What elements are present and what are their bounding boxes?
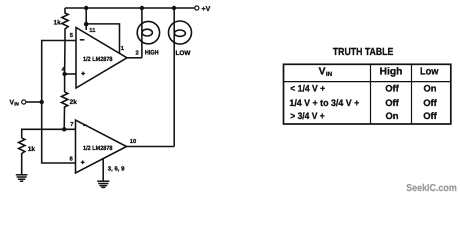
wire HIGH lamp vertical [141,8,143,58]
svg-text:IN: IN [326,71,333,78]
table row 3 Low cell [423,110,437,121]
svg-text:1/2 LM2878: 1/2 LM2878 [83,145,113,152]
lamp LOW [169,21,192,44]
svg-text:> 3/4 V +: > 3/4 V + [290,110,325,121]
label VIN [10,100,20,107]
svg-text:1k: 1k [28,146,36,153]
label 2k [70,99,78,106]
terminal +V [195,6,199,10]
node VIN junction [40,100,44,104]
pin 2 [136,49,139,56]
table row 2 VIN cell [289,97,359,108]
wire VIN to pin5 and pin8 [42,41,76,164]
table row 1 Low cell [423,83,436,94]
svg-text:High: High [380,67,403,78]
wire divider node A vertical (1k bottom to pin4 junction to 2k top) [64,41,66,93]
node rail/pin11 [84,6,88,10]
svg-text:1k: 1k [54,20,62,27]
node pin11/pin1 junction [84,22,89,27]
label HIGH [145,50,159,57]
svg-text:SeekIC.com: SeekIC.com [406,183,457,194]
svg-text:TRUTH TABLE: TRUTH TABLE [333,47,394,58]
svg-text:V: V [319,66,326,77]
svg-text:3, 6, 9: 3, 6, 9 [108,165,125,172]
svg-text:HIGH: HIGH [145,50,159,57]
label +V [202,6,211,13]
label U1 1/2 LM2878 [83,56,113,63]
table row 1 High cell [385,83,399,94]
svg-text:Off: Off [385,97,399,108]
svg-text:8: 8 [70,155,74,162]
terminal VIN [22,100,26,104]
wire pin7 lead / node B to lower 1k [22,129,76,138]
table header High [380,67,403,78]
pin 11 [89,28,96,34]
label LOW [176,50,192,57]
op-amp U1 plus input mark [81,72,85,76]
svg-text:+V: +V [202,6,211,13]
table row 1 VIN cell [290,83,325,94]
svg-text:11: 11 [89,28,96,34]
svg-text:LOW: LOW [176,50,192,57]
table row 3 High cell [385,110,398,121]
svg-text:2k: 2k [70,99,78,106]
resistor R2 2k [61,92,67,129]
label SeekIC.com watermark [406,183,457,194]
truth table box [284,64,451,124]
pin 4 [62,67,66,73]
svg-text:5: 5 [70,33,74,39]
wire top V+ rail [65,7,195,9]
svg-text:10: 10 [130,138,136,145]
svg-text:1/2 LM2878: 1/2 LM2878 [83,56,113,63]
node rail/HIGH [140,6,144,10]
svg-text:On: On [385,110,398,121]
label 3, 6, 9 [108,165,125,172]
label U2 1/2 LM2878 [83,145,113,152]
wire pin11 to rail [85,8,87,30]
table row 2 Low cell [423,97,437,108]
truth table header underline [284,81,451,83]
wire U2 ground stem [102,159,104,181]
op-amp U2 1/2 LM2878 (bottom) [76,120,127,173]
wire U1 output to HIGH lamp [127,57,142,59]
ground (below R3) [16,175,28,181]
node rail/LOW [172,6,176,10]
table header Low [420,67,438,78]
wire pin1 tie to V+ [86,24,119,54]
svg-text:< 1/4 V +: < 1/4 V + [290,83,325,94]
pin 8 [70,155,74,162]
op-amp U1 minus input mark [80,39,85,41]
node A junction (pin4) [62,72,66,76]
svg-text:7: 7 [70,122,73,128]
wire pin4 lead [65,73,76,75]
op-amp U2 plus input mark [81,160,85,164]
label 1k (bottom) [28,146,36,153]
svg-text:On: On [423,83,436,94]
table header VIN [319,66,333,78]
resistor R1 1k top [62,8,68,41]
table row 2 High cell [385,97,399,108]
ground (U2 pins 3,6,9) [97,181,109,187]
op-amp U1 1/2 LM2878 (top) [76,28,127,89]
resistor R3 1k bottom [19,138,25,175]
svg-text:2: 2 [136,49,139,56]
node B junction (2k bottom) [62,127,66,131]
pin 5 [70,33,74,39]
svg-text:IN: IN [14,102,19,107]
svg-text:1: 1 [121,46,125,52]
wire U2 output [127,146,175,148]
label TRUTH TABLE [333,47,394,58]
lamp HIGH [137,21,159,43]
svg-text:Off: Off [423,97,437,108]
truth table column lines [371,64,412,124]
svg-text:Low: Low [420,67,438,78]
svg-text:1/4 V + to 3/4 V +: 1/4 V + to 3/4 V + [289,97,359,108]
wire LOW lamp vertical to U2 output [173,8,175,147]
op-amp U2 minus input mark [83,124,87,126]
svg-text:Off: Off [423,110,437,121]
svg-text:Off: Off [385,83,399,94]
pin 1 [121,46,125,52]
table row 3 VIN cell [290,110,325,121]
pin 10 [130,138,136,145]
pin 7 [70,122,73,128]
label 1k (top) [54,20,62,27]
wire VIN lead [26,101,42,103]
